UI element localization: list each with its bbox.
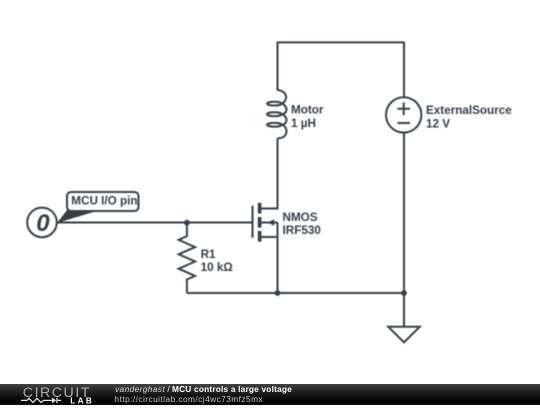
junction dot source/bottom — [275, 290, 281, 296]
junction dot ground — [401, 290, 407, 296]
svg-text:LAB: LAB — [70, 397, 94, 406]
svg-text:http://circuitlab.com/cj4wc73m: http://circuitlab.com/cj4wc73mfz5mx — [115, 394, 264, 404]
wire right vertical source top — [403, 42, 405, 98]
svg-text:0: 0 — [36, 210, 50, 237]
svg-text:IRF530: IRF530 — [283, 224, 322, 237]
svg-text:12 V: 12 V — [426, 117, 450, 130]
svg-text:1 µH: 1 µH — [291, 117, 316, 130]
io pin circle — [27, 208, 57, 238]
svg-text:10 kΩ: 10 kΩ — [201, 261, 233, 274]
wire inductor bottom to NMOS drain — [262, 138, 278, 208]
voltage source ExternalSource — [386, 97, 421, 132]
svg-text:R1: R1 — [201, 248, 216, 261]
svg-text:vanderghast / MCU controls a l: vanderghast / MCU controls a large volta… — [115, 384, 292, 394]
resistor R1 — [179, 222, 195, 294]
footer bar — [0, 384, 540, 405]
wire gate from pin — [57, 222, 252, 224]
junction dot gate/R1 — [184, 220, 190, 226]
inductor Motor — [267, 90, 286, 138]
ground — [388, 293, 419, 342]
svg-text:Motor: Motor — [291, 104, 324, 117]
wire NMOS source vertical — [277, 223, 279, 294]
nmos NMOS IRF530 — [253, 203, 278, 242]
wire bottom horizontal — [187, 292, 404, 294]
svg-text:ExternalSource: ExternalSource — [426, 104, 512, 117]
wire left vertical above inductor — [277, 42, 279, 91]
flag pointer MCU I/O pin — [57, 210, 96, 224]
logo squiggle resistor-diode — [21, 398, 61, 404]
svg-text:NMOS: NMOS — [283, 211, 318, 224]
flag box MCU I/O pin — [67, 192, 139, 211]
wire top horizontal — [278, 41, 405, 43]
svg-text:MCU I/O pin: MCU I/O pin — [71, 194, 137, 207]
wire right vertical source bottom — [403, 133, 405, 294]
